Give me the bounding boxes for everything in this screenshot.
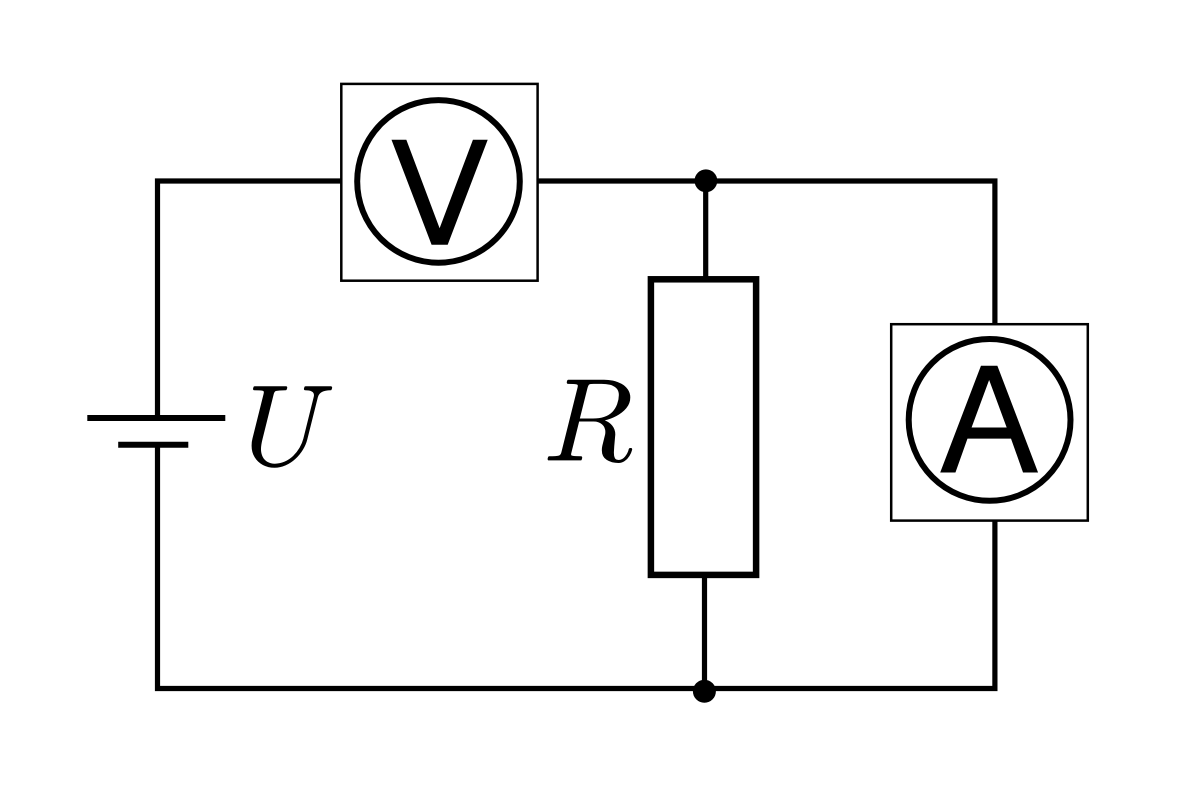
ammeter A: outer square box [891, 324, 1088, 520]
wire: voltmeter right to node A [537, 178, 706, 183]
label U: source voltage [252, 386, 333, 468]
wire: resistor R1 bottom lead to node B [702, 574, 707, 689]
wire: resistor R1 top lead from node A [703, 181, 708, 280]
ammeter A: meter circle [909, 339, 1071, 501]
node A: junction dot (top) [695, 169, 718, 192]
resistor R: body rectangle [651, 279, 756, 575]
voltmeter V: meter circle [357, 100, 520, 263]
battery U (voltage source): long positive plate [87, 415, 225, 421]
wire: battery negative to bottom-left corner to node B [158, 448, 705, 689]
wire: node B to bottom-right corner to ammeter bottom [704, 520, 995, 689]
label R: resistor value [548, 380, 633, 463]
battery U (voltage source): short negative plate [118, 442, 188, 448]
voltmeter V: letter V [391, 140, 487, 245]
ammeter A: letter A [940, 366, 1038, 473]
wire: node A to top-right corner to ammeter top [706, 181, 995, 326]
node B: junction dot (bottom) [693, 680, 716, 703]
voltmeter V: outer square box [341, 84, 537, 281]
wire: battery positive to top-left corner to voltmeter left [158, 181, 343, 416]
